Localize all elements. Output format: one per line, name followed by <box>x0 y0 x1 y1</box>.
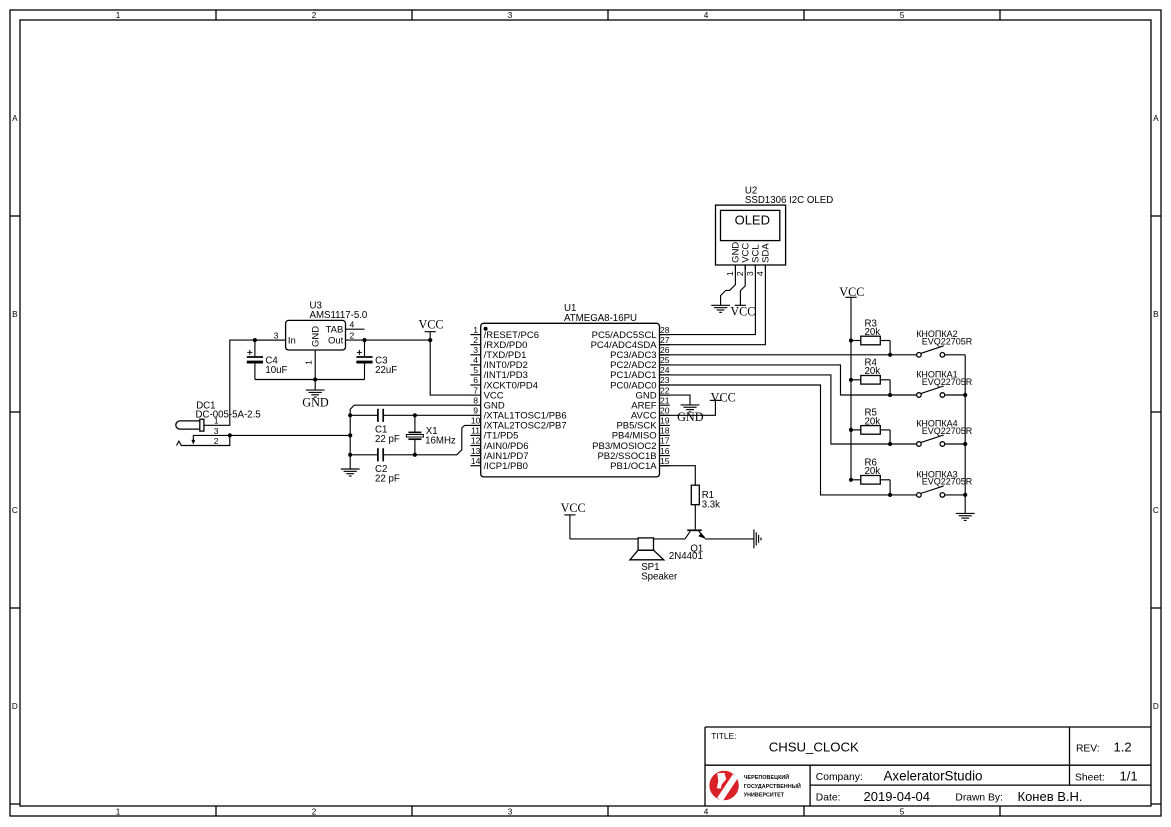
U1 pin 23 PC0/ADC0 <box>610 375 670 391</box>
node GND rail at DC1 row <box>348 433 352 437</box>
wire C2 row to U1 pin 10 <box>350 425 470 454</box>
svg-text:20k: 20k <box>865 466 881 477</box>
node rail row3 <box>963 442 967 446</box>
node R4 to switch row junction <box>888 393 892 397</box>
frame row letters right <box>1153 114 1159 711</box>
svg-text:20k: 20k <box>865 416 881 427</box>
wire U1 pin 20 AVCC to VCC <box>660 400 716 415</box>
switch КНОПКА1 EVQ22705R <box>890 386 965 397</box>
U3 pin 4 TAB stub <box>346 319 365 329</box>
svg-text:22uF: 22uF <box>375 365 397 376</box>
svg-text:14: 14 <box>471 456 481 466</box>
capacitor C3 <box>356 340 372 379</box>
ground U3 with label <box>302 380 329 410</box>
svg-text:24: 24 <box>660 365 670 375</box>
svg-text:26: 26 <box>660 345 670 355</box>
frame column ticks bottom <box>216 806 1000 816</box>
node R3 to switch row junction <box>888 353 892 357</box>
svg-text:22 pF: 22 pF <box>375 474 400 485</box>
wire U2 pin 3 SCL to U1 pin 28 <box>660 265 756 335</box>
wire GND rail vertical <box>349 415 351 455</box>
resistor R5 20k <box>851 426 890 444</box>
wire U2 pin 1 to ground <box>721 265 736 305</box>
node DC1 ground junction <box>228 433 232 437</box>
power VCC at U2 pin 2 inverted <box>730 304 755 318</box>
op-amp U1 reference label <box>564 303 637 324</box>
node GND rail at C2 row <box>348 453 352 457</box>
svg-text:VCC: VCC <box>730 304 755 318</box>
capacitor C2 labels <box>375 464 400 485</box>
frame column numbers top <box>116 11 905 20</box>
connector DC1 barrel jack symbol <box>176 419 230 445</box>
U1 pin 5 /INT1/PD3 <box>470 365 528 381</box>
crystal X1 labels <box>425 426 456 447</box>
svg-text:A: A <box>12 114 18 123</box>
svg-text:9: 9 <box>473 406 478 416</box>
svg-text:Drawn By:: Drawn By: <box>955 793 1003 804</box>
svg-text:A: A <box>1153 114 1159 123</box>
switch КНОПКА4 EVQ22705R <box>890 435 965 446</box>
ground at Q1 emitter rotated <box>754 530 761 549</box>
svg-text:D: D <box>12 702 18 711</box>
wire U1 pin 22 to ground <box>660 395 691 405</box>
svg-text:2N4401: 2N4401 <box>669 551 703 562</box>
svg-text:VCC: VCC <box>711 391 736 405</box>
U1 pin 1 marker dot <box>484 327 488 331</box>
svg-text:20: 20 <box>660 406 670 416</box>
U1 pin 10 /XTAL2TOSC2/PB7 <box>470 416 566 432</box>
frame row ticks right <box>1151 216 1161 804</box>
title block box <box>705 727 1151 806</box>
svg-text:/ICP1/PB0: /ICP1/PB0 <box>484 461 528 472</box>
svg-text:28: 28 <box>660 325 670 335</box>
switch КНОПКА1 labels <box>916 369 973 386</box>
wire Q1 emitter to ground <box>705 538 754 540</box>
transistor Q1 labels <box>669 543 703 562</box>
U1 pin 12 /AIN0/PD6 <box>470 436 528 452</box>
svg-text:17: 17 <box>660 436 670 446</box>
svg-text:Out: Out <box>328 335 344 346</box>
svg-text:23: 23 <box>660 375 670 385</box>
svg-text:2: 2 <box>312 11 317 20</box>
switch КНОПКА2 labels <box>916 329 973 346</box>
U1 pin 27 PC4/ADC4SDA <box>591 335 670 351</box>
svg-text:1: 1 <box>116 808 121 817</box>
DC1 pin numbers <box>214 416 219 446</box>
svg-text:4: 4 <box>350 319 355 329</box>
logo university name text <box>744 773 801 798</box>
crystal X1 <box>406 415 423 455</box>
wire U1 pin 26 to switch row 1 <box>660 354 891 356</box>
U1 pin 4 /INT0/PD2 <box>470 355 528 371</box>
wire DC1 ground to GND rail <box>230 434 350 436</box>
U1 pin 19 PB5/SCK <box>616 416 669 432</box>
svg-text:VCC: VCC <box>418 318 443 332</box>
svg-text:D: D <box>1153 702 1159 711</box>
svg-text:16: 16 <box>660 446 670 456</box>
svg-text:10uF: 10uF <box>265 365 287 376</box>
svg-text:Date:: Date: <box>816 793 841 804</box>
power VCC above button resistors <box>839 285 864 480</box>
node rail row2 <box>963 393 967 397</box>
switch КНОПКА4 labels <box>916 418 973 435</box>
svg-text:5: 5 <box>900 11 905 20</box>
ground at U2 pin 1 <box>711 305 730 312</box>
U1 pin 2 /RXD/PD0 <box>470 335 527 351</box>
node C3 top junction <box>362 338 366 342</box>
frame row ticks left <box>10 216 20 804</box>
U1 pin 21 AREF <box>631 395 670 411</box>
svg-text:2: 2 <box>350 330 355 340</box>
svg-text:13: 13 <box>471 446 481 456</box>
svg-text:4: 4 <box>704 11 709 20</box>
U3 pin 3 In stub <box>255 330 286 340</box>
logo ChSU red emblem <box>709 771 738 802</box>
svg-text:In: In <box>288 335 296 346</box>
svg-text:8: 8 <box>473 395 478 405</box>
svg-text:B: B <box>1153 310 1159 319</box>
IC U1 ATMEGA8-16PU body <box>481 323 660 477</box>
title block Sheet cell <box>1075 769 1138 784</box>
svg-text:4: 4 <box>755 271 765 276</box>
U1 pin 14 /ICP1/PB0 <box>470 456 528 472</box>
node GND rail at C1 row <box>348 413 352 417</box>
wire switches common rail <box>964 355 966 513</box>
wire U1 pin 24 to switch row 3 <box>660 375 891 444</box>
svg-text:20k: 20k <box>865 366 881 377</box>
svg-text:2: 2 <box>473 335 478 345</box>
node VCC rail at R6 <box>849 478 853 482</box>
svg-text:SDA: SDA <box>761 243 772 263</box>
title block Date row <box>816 789 1083 804</box>
wire U3 Out to VCC node <box>365 339 431 341</box>
svg-text:22: 22 <box>660 385 670 395</box>
U1 pin 25 PC2/ADC2 <box>610 355 670 371</box>
svg-text:2019-04-04: 2019-04-04 <box>864 789 931 804</box>
speaker SP1 labels <box>641 562 678 583</box>
title block REV cell <box>1076 740 1132 755</box>
U1 pin 17 PB3/MOSIOC2 <box>592 436 670 452</box>
svg-text:AxeleratorStudio: AxeleratorStudio <box>884 768 983 783</box>
svg-text:22 pF: 22 pF <box>375 434 400 445</box>
resistor R4 labels <box>865 358 881 378</box>
svg-text:3: 3 <box>274 330 279 340</box>
node R6 to switch row junction <box>888 493 892 497</box>
switch КНОПКА3 EVQ22705R <box>890 486 965 497</box>
node X1 top junction <box>413 413 417 417</box>
svg-text:25: 25 <box>660 355 670 365</box>
svg-text:1.2: 1.2 <box>1114 740 1132 755</box>
resistor R3 20k <box>851 336 890 355</box>
frame column numbers bottom <box>116 808 905 817</box>
U3 pin 2 Out stub <box>346 330 365 340</box>
capacitor C1 labels <box>375 425 400 446</box>
svg-text:4: 4 <box>704 808 709 817</box>
svg-text:6: 6 <box>473 375 478 385</box>
U1 pin 24 PC1/ADC1 <box>610 365 670 381</box>
svg-text:3: 3 <box>473 345 478 355</box>
svg-text:1: 1 <box>214 416 219 426</box>
wire C1 row pin 9 <box>350 414 470 416</box>
svg-text:OLED: OLED <box>735 212 770 227</box>
svg-text:3: 3 <box>745 271 755 276</box>
display U2 reference labels <box>745 186 833 206</box>
svg-text:1: 1 <box>304 360 314 365</box>
U1 pin 18 PB4/MISO <box>612 426 670 442</box>
U1 pin 20 AVCC <box>631 406 670 422</box>
svg-text:TAB: TAB <box>326 325 344 336</box>
svg-text:GND: GND <box>302 395 329 409</box>
wire VCC to speaker <box>570 538 638 540</box>
svg-text:SSD1306 I2C OLED: SSD1306 I2C OLED <box>745 195 833 206</box>
resistor R5 labels <box>865 408 881 428</box>
wire U1 pin 23 to switch row 4 <box>660 385 891 495</box>
power VCC at AVCC <box>710 391 736 405</box>
svg-text:21: 21 <box>660 395 670 405</box>
svg-text:CHSU_CLOCK: CHSU_CLOCK <box>769 740 859 755</box>
svg-text:GND: GND <box>311 326 322 347</box>
wire R1 to Q1 base <box>694 505 696 530</box>
node U3 GND junction <box>313 377 317 381</box>
node VCC rail at R3 <box>849 338 853 342</box>
switch КНОПКА3 labels <box>916 469 973 486</box>
svg-text:C: C <box>12 506 18 515</box>
U1 pin 1 /RESET/PC6 <box>470 325 539 341</box>
svg-text:1: 1 <box>473 325 478 335</box>
svg-text:Конев В.Н.: Конев В.Н. <box>1018 789 1083 804</box>
node VCC rail at R4 <box>849 378 853 382</box>
svg-text:1/1: 1/1 <box>1120 769 1138 784</box>
svg-text:3: 3 <box>508 808 513 817</box>
U1 pin 3 /TXD/PD1 <box>470 345 526 361</box>
U1 pin 15 PB1/OC1A <box>610 456 670 472</box>
node X1 bottom junction <box>413 453 417 457</box>
svg-text:B: B <box>12 310 18 319</box>
svg-text:3: 3 <box>508 11 513 20</box>
wire U3 ground rail <box>255 379 365 381</box>
svg-text:5: 5 <box>473 365 478 375</box>
frame row letters left <box>12 114 18 711</box>
resistor R6 labels <box>865 458 881 478</box>
svg-text:11: 11 <box>471 426 480 436</box>
svg-text:10: 10 <box>471 416 481 426</box>
U2 pin number labels rotated <box>725 271 765 276</box>
wire U1 pin 8 GND to rail <box>350 405 470 415</box>
U1 pin 13 /AIN1/PD7 <box>470 446 528 462</box>
U1 pin 9 /XTAL1TOSC1/PB6 <box>470 406 566 422</box>
svg-text:2: 2 <box>214 436 219 446</box>
U2 pin stubs <box>735 265 765 270</box>
regulator U3 AMS1117-5.0 body <box>286 320 346 350</box>
svg-text:Sheet:: Sheet: <box>1075 773 1105 784</box>
svg-text:Speaker: Speaker <box>641 572 678 583</box>
resistor R1 labels <box>702 490 720 511</box>
wire VCC node to U1 pin 7 <box>430 340 470 395</box>
svg-text:AMS1117-5.0: AMS1117-5.0 <box>310 310 368 321</box>
svg-text:УНИВЕРСИТЕТ: УНИВЕРСИТЕТ <box>744 792 785 798</box>
svg-text:GND: GND <box>677 410 704 424</box>
capacitor C4 labels <box>265 355 287 376</box>
transistor Q1 2N4401 <box>685 530 705 539</box>
ground crystal cluster <box>341 455 360 476</box>
svg-text:VCC: VCC <box>839 285 864 299</box>
svg-text:2: 2 <box>312 808 317 817</box>
svg-text:ЧЕРЕПОВЕЦКИЙ: ЧЕРЕПОВЕЦКИЙ <box>744 773 790 781</box>
svg-text:PB1/OC1A: PB1/OC1A <box>610 461 657 472</box>
svg-text:7: 7 <box>473 385 478 395</box>
U1 pin 8 GND <box>470 395 504 411</box>
svg-text:18: 18 <box>660 426 670 436</box>
svg-text:ГОСУДАРСТВЕННЫЙ: ГОСУДАРСТВЕННЫЙ <box>744 782 801 790</box>
wire U1 pin 15 to R1 <box>660 466 696 486</box>
power VCC above U3 output <box>418 318 443 340</box>
title block Company row <box>816 768 983 783</box>
svg-text:C: C <box>1153 506 1159 515</box>
wire U2 pin 2 to VCC <box>740 265 745 305</box>
wire U1 pin 25 to switch row 2 <box>660 365 891 395</box>
svg-text:27: 27 <box>660 335 670 345</box>
ground at U1 pin 22 with label <box>681 405 700 412</box>
svg-text:DC-005-5A-2.5: DC-005-5A-2.5 <box>196 409 261 420</box>
U1 pin 11 /T1/PD5 <box>470 426 518 442</box>
svg-text:12: 12 <box>471 436 481 446</box>
ground buttons rail <box>956 513 975 520</box>
svg-text:3.3k: 3.3k <box>702 500 720 511</box>
resistor R6 20k <box>851 476 890 495</box>
capacitor C2 <box>378 448 383 461</box>
svg-text:EVQ22705R: EVQ22705R <box>922 337 973 347</box>
U1 pin 28 PC5/ADC5SCL <box>592 325 670 341</box>
svg-text:REV:: REV: <box>1076 743 1100 754</box>
resistor R4 20k <box>851 376 890 396</box>
power VCC at speaker <box>561 501 586 539</box>
U1 pin 6 /XCKT0/PD4 <box>470 375 538 391</box>
regulator U3 reference label <box>310 300 368 321</box>
U1 pin 26 PC3/ADC3 <box>610 345 670 361</box>
svg-text:TITLE:: TITLE: <box>711 731 736 741</box>
node VCC rail at R5 <box>849 428 853 432</box>
svg-text:5: 5 <box>900 808 905 817</box>
node C4 top junction <box>253 338 257 342</box>
U1 pin 22 GND <box>635 385 669 401</box>
node VCC junction above U1 <box>428 338 432 342</box>
switch КНОПКА2 EVQ22705R <box>890 346 965 357</box>
U2 pin names rotated <box>731 242 772 263</box>
speaker SP1 <box>630 538 664 560</box>
resistor R3 labels <box>865 318 881 338</box>
resistor R1 3.3k <box>691 485 699 505</box>
svg-text:1: 1 <box>116 11 121 20</box>
svg-text:20k: 20k <box>865 327 881 338</box>
capacitor C1 <box>378 409 383 422</box>
svg-text:15: 15 <box>660 456 670 466</box>
svg-text:Company:: Company: <box>816 772 863 783</box>
display U2 screen box <box>721 210 780 240</box>
frame column ticks top <box>216 10 1000 20</box>
U1 pin 16 PB2/SSOC1B <box>597 446 669 462</box>
capacitor C3 labels <box>375 355 397 376</box>
wire DC1 pin1 to U3 In <box>204 340 286 425</box>
wire U2 pin 4 SDA to U1 pin 27 <box>660 265 766 345</box>
U3 pin 1 GND stub <box>304 350 316 380</box>
svg-text:1: 1 <box>725 271 735 276</box>
node rail row4 <box>963 493 967 497</box>
svg-text:2: 2 <box>735 271 745 276</box>
svg-text:3: 3 <box>214 426 219 436</box>
svg-text:16MHz: 16MHz <box>425 436 456 447</box>
node R5 to switch row junction <box>888 442 892 446</box>
display U2 body <box>716 205 786 265</box>
svg-text:VCC: VCC <box>561 501 586 515</box>
svg-text:4: 4 <box>473 355 478 365</box>
wire speaker to Q1 collector <box>654 538 686 540</box>
svg-text:ATMEGA8-16PU: ATMEGA8-16PU <box>564 313 637 324</box>
svg-text:19: 19 <box>660 416 670 426</box>
capacitor C4 <box>247 340 263 379</box>
connector DC1 reference labels <box>196 400 261 420</box>
U1 pin 7 VCC <box>470 385 503 401</box>
